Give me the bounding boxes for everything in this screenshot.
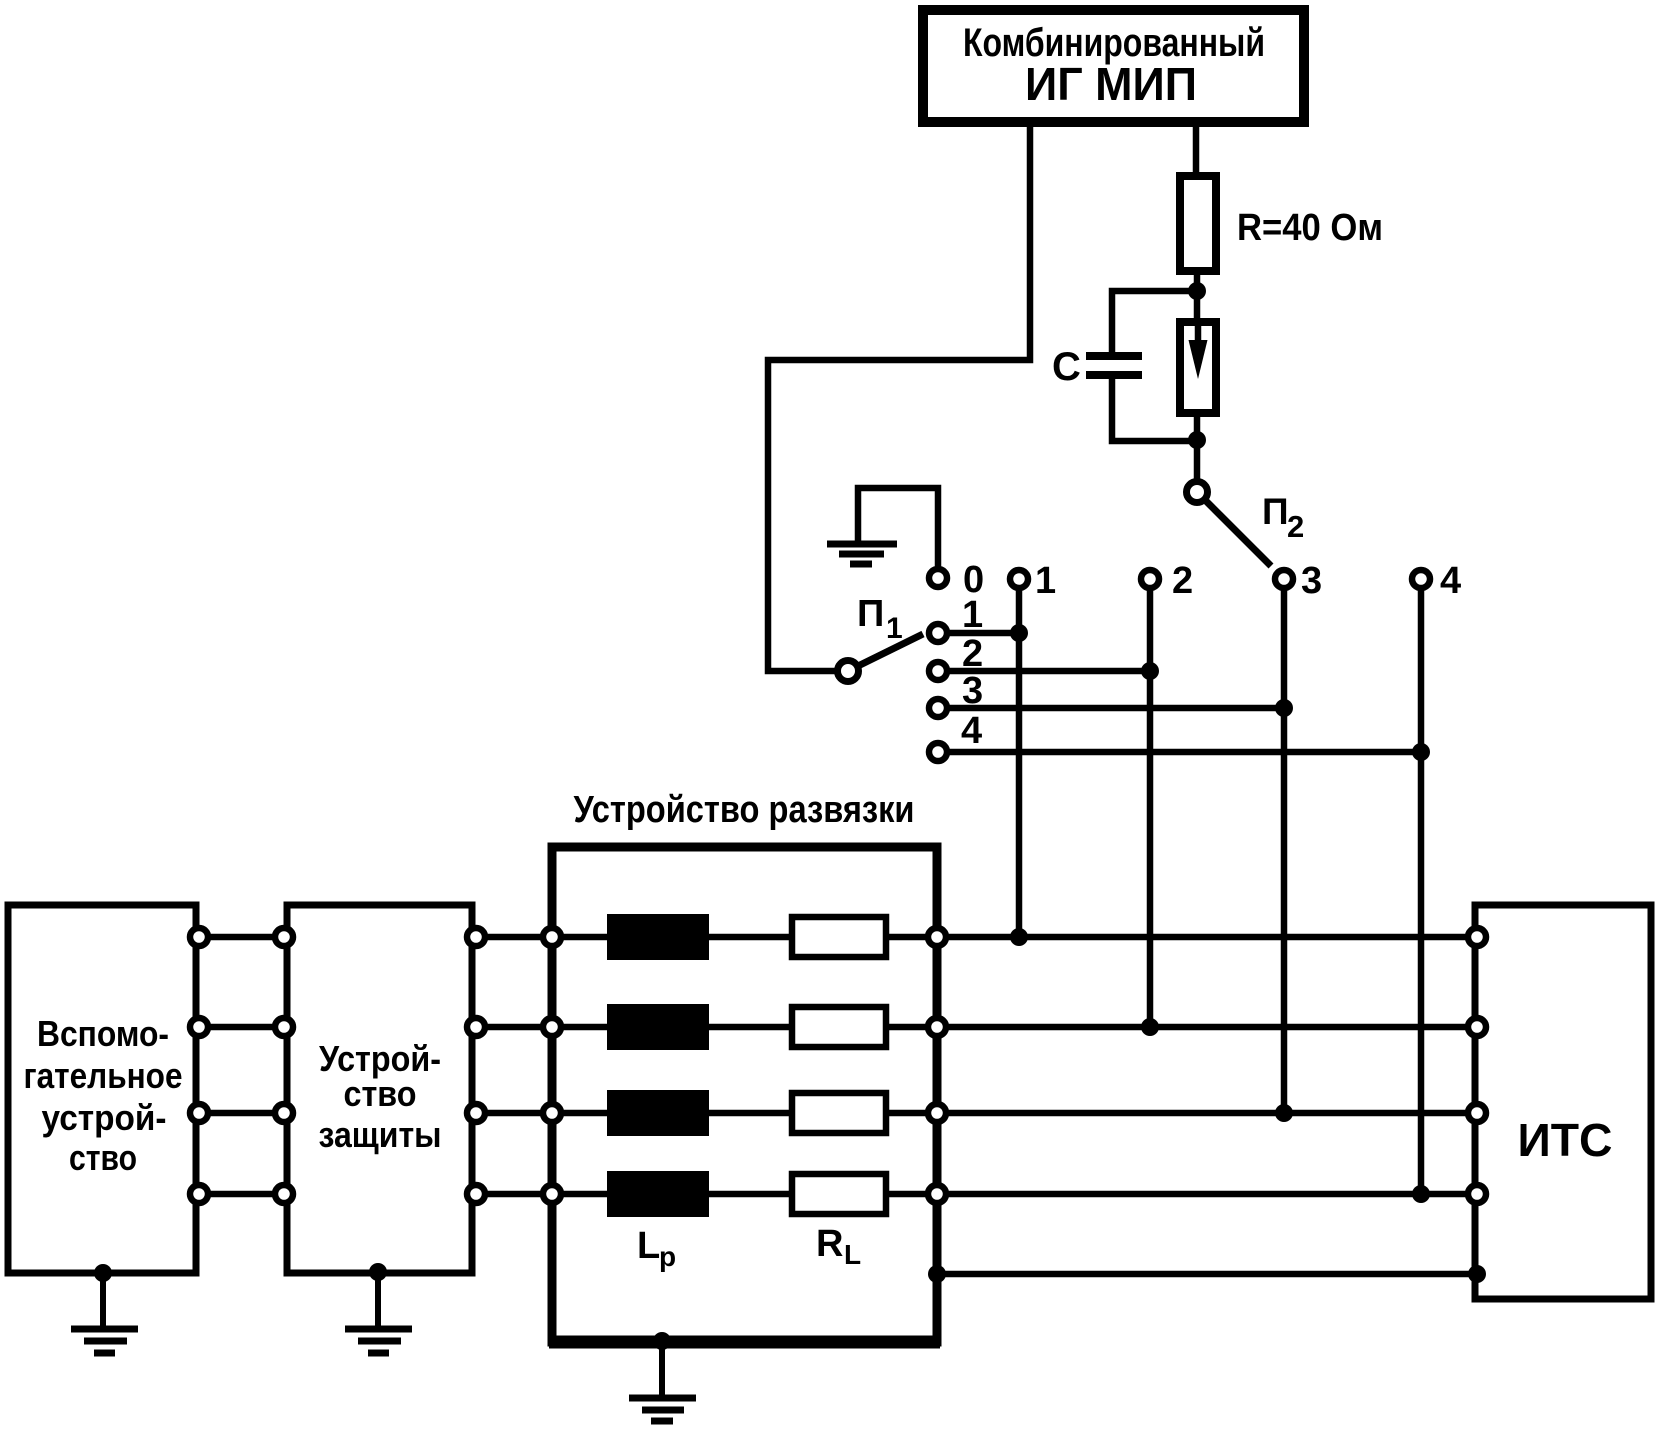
label П2	[1262, 491, 1304, 544]
vertical line 2	[1147, 588, 1154, 1027]
svg-text:1: 1	[962, 594, 983, 636]
junction line4/row4	[1412, 1185, 1430, 1203]
junction line1/row1	[1010, 928, 1028, 946]
svg-text:R: R	[816, 1223, 843, 1265]
junction line2/selector2	[1141, 662, 1159, 680]
resistor RL row 1	[792, 917, 886, 957]
inductor Lp row 4	[607, 1171, 709, 1217]
wire from generator right output to resistor R	[1193, 123, 1200, 176]
label Lp	[637, 1225, 676, 1272]
wire resistor to node	[1194, 271, 1201, 318]
resistor RL row 3	[792, 1093, 886, 1133]
common return wire	[937, 1271, 1477, 1278]
svg-text:Устройство развязки: Устройство развязки	[574, 789, 915, 831]
wire arrester to node	[1194, 417, 1201, 480]
protection device box	[287, 905, 472, 1273]
capacitor C plates	[1052, 345, 1142, 389]
wire selector 1 to line 1	[947, 630, 1019, 637]
svg-text:2: 2	[1172, 560, 1193, 602]
switch П1 blade	[856, 634, 923, 667]
generator box ИГ МИП	[923, 10, 1304, 122]
svg-text:П: П	[1262, 491, 1289, 532]
svg-text:1: 1	[1035, 560, 1056, 602]
inductor Lp row 1	[607, 914, 709, 960]
resistor RL row 2	[792, 1007, 886, 1047]
svg-text:2: 2	[1287, 509, 1304, 544]
contact 2 top row	[1141, 560, 1193, 602]
svg-text:ство: ство	[69, 1137, 137, 1178]
node under resistor	[1188, 282, 1206, 300]
row 2 wires	[199, 1024, 1477, 1031]
row 3 wires	[199, 1110, 1477, 1117]
ground symbol upper	[827, 544, 897, 564]
svg-text:П: П	[857, 593, 884, 635]
svg-text:ство: ство	[344, 1073, 417, 1114]
vertical line 4	[1418, 588, 1425, 1194]
svg-text:устрой-: устрой-	[42, 1097, 167, 1138]
svg-text:R=40 Ом: R=40 Ом	[1237, 207, 1383, 249]
resistor R=40 Ом	[1180, 176, 1383, 271]
selector contact 4	[929, 710, 982, 761]
junction line4/selector4	[1412, 743, 1430, 761]
row 1 wires	[199, 934, 1477, 941]
label П1	[857, 593, 903, 645]
terminals protection left edge	[275, 928, 293, 1203]
junction return wire left	[928, 1265, 946, 1283]
selector contact 3	[929, 670, 983, 717]
auxiliary device box	[8, 905, 196, 1273]
junction line3/row3	[1275, 1104, 1293, 1122]
contact 3 top row	[1275, 560, 1322, 602]
wire selector 2 to line 2	[947, 668, 1150, 675]
inductor Lp row 2	[607, 1004, 709, 1050]
resistor RL row 4	[792, 1174, 886, 1214]
node under arrester	[1188, 431, 1206, 449]
arrester (box with arrow)	[1180, 322, 1216, 413]
svg-text:p: p	[659, 1241, 676, 1272]
decoupling device box	[552, 847, 937, 1342]
junction line2/row2	[1141, 1018, 1159, 1036]
svg-text:ИГ МИП: ИГ МИП	[1025, 58, 1197, 110]
ITS box	[1475, 905, 1651, 1299]
capacitor C branch wires	[1112, 291, 1197, 441]
switch П2 blade	[1205, 500, 1271, 566]
switch П2 pole	[1187, 482, 1208, 503]
svg-text:ИТС: ИТС	[1518, 1114, 1613, 1166]
wire selector 3 to line 3	[947, 705, 1284, 712]
ground decoupling	[629, 1332, 696, 1421]
selector contact 1	[929, 594, 983, 642]
row 4 wires	[199, 1191, 1477, 1198]
terminals decoupling right edge	[928, 928, 946, 1203]
svg-text:L: L	[637, 1225, 660, 1267]
svg-text:Вспомо-: Вспомо-	[37, 1013, 169, 1054]
terminals decoupling left edge	[543, 928, 561, 1203]
svg-text:гательное: гательное	[24, 1055, 183, 1096]
svg-text:защиты: защиты	[319, 1114, 442, 1155]
ground protection	[345, 1263, 412, 1353]
svg-text:L: L	[844, 1239, 861, 1270]
label RL	[816, 1223, 861, 1270]
terminals protection right edge	[467, 928, 485, 1203]
contact 4 top row	[1412, 560, 1461, 602]
ground wire to contact 0	[858, 488, 938, 567]
svg-text:4: 4	[1440, 560, 1461, 602]
inductor Lp row 3	[607, 1090, 709, 1136]
svg-text:1: 1	[886, 612, 903, 645]
contact 0	[929, 559, 984, 601]
contact 1 top row	[1010, 560, 1056, 602]
svg-text:4: 4	[961, 710, 982, 752]
junction return wire right	[1468, 1265, 1486, 1283]
junction line1/selector1	[1010, 624, 1028, 642]
junction line3/selector3	[1275, 699, 1293, 717]
svg-text:3: 3	[1301, 560, 1322, 602]
terminals auxiliary right edge	[190, 928, 208, 1203]
wire from generator left output down-left to switch П1	[768, 123, 1030, 671]
ground auxiliary	[71, 1264, 138, 1353]
vertical line 1	[1016, 588, 1023, 937]
wire selector 4 to line 4	[947, 749, 1421, 756]
svg-text:C: C	[1052, 345, 1081, 389]
selector contact 2	[929, 633, 983, 680]
vertical line 3	[1281, 588, 1288, 1113]
switch П1 pole	[838, 661, 859, 682]
terminals ITS left edge	[1468, 928, 1486, 1203]
